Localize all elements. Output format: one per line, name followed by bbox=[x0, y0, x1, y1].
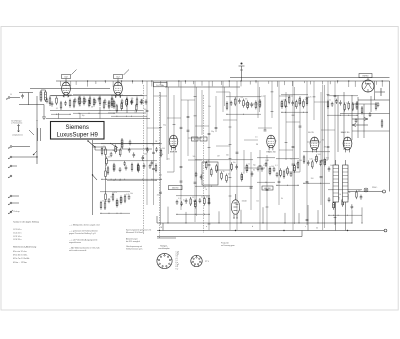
node bbox=[283, 230, 284, 231]
wire chassis bus 1 bbox=[157, 222, 352, 224]
terminal E bbox=[8, 195, 12, 198]
svg-text:200: 200 bbox=[299, 160, 302, 162]
svg-text:EL 95: EL 95 bbox=[308, 132, 314, 134]
capacitor C6 bbox=[121, 99, 124, 105]
tube V1 ECH81 bbox=[62, 82, 71, 97]
svg-text:— = als Prufsender-Ausgangswer: — = als Prufsender-Ausgangswerte bbox=[69, 239, 97, 242]
svg-text:47k: 47k bbox=[131, 98, 134, 100]
svg-text:0,25: 0,25 bbox=[308, 96, 311, 98]
svg-text:Abweichungen: Abweichungen bbox=[126, 238, 138, 241]
wire EM80 output bbox=[358, 99, 390, 101]
note test point bbox=[221, 242, 235, 248]
terminal antenna A1 bbox=[6, 97, 10, 100]
svg-text:gegen Chassis bei Stellung 1 g: gegen Chassis bei Stellung 1 g.U. bbox=[69, 232, 97, 235]
wire bbox=[105, 179, 107, 192]
svg-text:f1: f1 bbox=[194, 139, 196, 141]
svg-text:0,5: 0,5 bbox=[241, 97, 243, 99]
svg-text:70: 70 bbox=[290, 159, 292, 161]
svg-text:an Fassung gem.: an Fassung gem. bbox=[221, 245, 235, 247]
svg-text:10,7 MHz: 10,7 MHz bbox=[156, 85, 164, 87]
wire right edge drop bbox=[389, 81, 391, 192]
svg-text:10: 10 bbox=[10, 94, 12, 96]
svg-text:Messwerk 20 kOhm/V: Messwerk 20 kOhm/V bbox=[126, 232, 144, 234]
capacitor C1 bbox=[46, 98, 49, 104]
wire bus corner bbox=[156, 216, 158, 223]
wire bbox=[12, 202, 19, 204]
wire bus3 corner bbox=[301, 231, 303, 237]
switch S1 bbox=[87, 140, 95, 150]
capacitor C2 bbox=[74, 98, 77, 104]
svg-text:bis 20% moeglich: bis 20% moeglich bbox=[126, 241, 140, 243]
wire arrows tuning bbox=[352, 118, 368, 127]
capacitor C9 bbox=[129, 140, 132, 146]
svg-text:10n: 10n bbox=[104, 104, 107, 106]
potentiometer P1 bbox=[33, 151, 38, 158]
capacitor C41 bbox=[369, 112, 372, 117]
svg-text:M in ein 12 ckn.: M in ein 12 ckn. bbox=[13, 251, 27, 253]
wire row feed bbox=[50, 95, 143, 97]
svg-text:Vielfachmesser gem.: Vielfachmesser gem. bbox=[126, 249, 143, 251]
wire bbox=[43, 105, 45, 118]
wire bbox=[110, 143, 118, 148]
terminal G bbox=[8, 211, 12, 214]
note text Telefunken bbox=[11, 120, 22, 125]
socket noval view bbox=[157, 253, 172, 268]
wire comb jogs bbox=[147, 92, 335, 150]
note bbox=[69, 224, 100, 227]
note bbox=[126, 229, 152, 235]
svg-text:0,25: 0,25 bbox=[261, 96, 264, 98]
svg-text:25: 25 bbox=[79, 106, 81, 108]
scattered value labels left bbox=[49, 94, 147, 116]
svg-text:220V~: 220V~ bbox=[372, 187, 378, 189]
svg-text:0,5: 0,5 bbox=[302, 103, 304, 105]
wire drop bbox=[99, 113, 101, 119]
svg-text:50k: 50k bbox=[208, 106, 211, 108]
svg-text:0,1: 0,1 bbox=[275, 165, 277, 167]
svg-text:50k: 50k bbox=[193, 156, 196, 158]
wire left column bbox=[36, 96, 38, 121]
wire bbox=[343, 92, 345, 150]
wire bbox=[36, 120, 38, 164]
tube V4 EABC80 bbox=[267, 135, 276, 150]
wire bbox=[335, 202, 337, 210]
terminal TB bbox=[8, 156, 12, 159]
svg-text:Wellenbereich-Abstimmung:: Wellenbereich-Abstimmung: bbox=[13, 246, 37, 249]
capacitor C3 bbox=[84, 98, 87, 104]
svg-text:Pick-up: Pick-up bbox=[14, 211, 20, 213]
note bbox=[126, 238, 140, 244]
label box ZF2 bbox=[262, 186, 273, 190]
wire stub 238 bbox=[157, 237, 176, 239]
capacitor C42 bbox=[355, 118, 358, 123]
lamp pilot bbox=[364, 188, 368, 192]
resistor R5 bbox=[111, 98, 113, 109]
dipole symbol bbox=[17, 125, 19, 133]
svg-text:1:140: 1:140 bbox=[242, 201, 248, 203]
component cluster bias bbox=[328, 190, 363, 216]
wire bbox=[363, 104, 365, 138]
note bbox=[69, 247, 100, 253]
svg-text:M 9x 7m 13 5mWr.: M 9x 7m 13 5mWr. bbox=[13, 258, 30, 260]
wire bbox=[12, 156, 37, 158]
component cluster V1 grid bbox=[51, 96, 71, 115]
wire bbox=[235, 194, 237, 200]
terminal D bbox=[8, 175, 12, 178]
switch S2 bbox=[92, 174, 97, 180]
wire bbox=[28, 93, 30, 106]
svg-text:1n: 1n bbox=[223, 171, 225, 173]
wire bbox=[126, 107, 128, 113]
svg-text:Siemens: Siemens bbox=[66, 125, 89, 131]
wire left grid bus bbox=[30, 88, 110, 90]
svg-text:EABC 80: EABC 80 bbox=[267, 151, 277, 154]
capacitor C7 bbox=[131, 99, 134, 105]
transistor-ish target screen bbox=[375, 88, 385, 96]
component cluster tone 1 bbox=[100, 192, 133, 214]
svg-text:5k: 5k bbox=[141, 95, 143, 97]
resistor R6 bbox=[126, 97, 128, 108]
terminal TA bbox=[8, 146, 12, 149]
wire bbox=[93, 146, 106, 148]
wire bbox=[340, 113, 390, 115]
wire bbox=[41, 89, 46, 91]
svg-text:200: 200 bbox=[311, 178, 314, 180]
wire bbox=[357, 97, 359, 138]
svg-text:8k: 8k bbox=[162, 154, 164, 156]
wire drop bbox=[307, 205, 309, 231]
svg-text:8k: 8k bbox=[235, 202, 237, 204]
resistor R7 bbox=[136, 97, 138, 108]
svg-text:0,1: 0,1 bbox=[178, 198, 180, 200]
wire bbox=[335, 160, 337, 165]
svg-text:1n: 1n bbox=[248, 164, 250, 166]
wire bbox=[19, 104, 44, 106]
wire bbox=[10, 97, 20, 99]
node B+ feed bbox=[239, 63, 245, 82]
wire dashed screen 2 bbox=[203, 95, 205, 233]
wire top HT bus bbox=[56, 80, 390, 82]
svg-text:52: 52 bbox=[316, 228, 318, 230]
svg-text:Rontgen-: Rontgen- bbox=[160, 245, 168, 248]
socket pin list bbox=[176, 252, 179, 271]
svg-text:8k: 8k bbox=[122, 148, 124, 150]
wire diag bbox=[29, 130, 34, 135]
wire bus corner 2 bbox=[162, 223, 164, 231]
wire top HT bus 2 bbox=[230, 77, 390, 79]
wire bbox=[352, 103, 376, 105]
resistor R22 bbox=[105, 192, 107, 203]
wire bbox=[352, 130, 390, 132]
component cluster phase inv bbox=[276, 159, 302, 186]
wire pair right bbox=[323, 85, 325, 230]
legend list ranges bbox=[13, 251, 30, 264]
svg-text:Gleichspannung mit: Gleichspannung mit bbox=[126, 245, 142, 248]
svg-text:50k: 50k bbox=[265, 160, 268, 162]
wire row return bbox=[50, 110, 143, 112]
svg-text:30p: 30p bbox=[253, 164, 256, 166]
svg-text:angeschlossen: angeschlossen bbox=[69, 242, 81, 244]
wire row bottom link bbox=[46, 118, 150, 120]
wire bbox=[108, 112, 146, 114]
component cluster IF amp 2 bbox=[281, 95, 312, 113]
svg-text:AM 460: AM 460 bbox=[264, 187, 270, 190]
wire bbox=[122, 148, 152, 150]
coil L2 antenna bbox=[45, 90, 47, 102]
svg-text:0,5: 0,5 bbox=[201, 196, 203, 198]
label for V7 bbox=[359, 74, 372, 78]
svg-text:1n: 1n bbox=[183, 199, 185, 201]
transformer TR1 primary bbox=[333, 165, 339, 202]
svg-text:10n: 10n bbox=[167, 158, 170, 160]
wire bbox=[92, 140, 94, 215]
svg-text:Spannungswerte gemessen mit: Spannungswerte gemessen mit bbox=[126, 229, 152, 232]
svg-text:f2: f2 bbox=[203, 139, 205, 141]
svg-text:15k: 15k bbox=[245, 98, 248, 100]
coil L3 bbox=[121, 138, 123, 149]
svg-text:EBF 89: EBF 89 bbox=[170, 152, 178, 154]
resistor R1 bbox=[49, 96, 51, 107]
tube V6 EZ80 bbox=[343, 137, 352, 152]
svg-text:100: 100 bbox=[144, 109, 147, 111]
terminal chassis right bbox=[384, 229, 387, 232]
terminal F bbox=[8, 202, 12, 205]
svg-text:— = Mittelpunkte, die bei ausg: — = Mittelpunkte, die bei ausgeb. sind bbox=[69, 224, 100, 227]
svg-text:8k: 8k bbox=[349, 192, 351, 194]
tube V3 EBF89 bbox=[169, 135, 178, 150]
wire bbox=[95, 149, 122, 151]
tube V5 EL84 bbox=[310, 137, 319, 152]
capacitor C40 bbox=[377, 102, 380, 107]
wire pair down bbox=[38, 128, 41, 141]
component cluster PSU filter bbox=[303, 152, 333, 184]
resistor R21 bbox=[105, 169, 107, 180]
label HF2 for V2 bbox=[114, 75, 123, 79]
component cluster ratio det bbox=[101, 144, 165, 180]
wire drop bbox=[79, 113, 81, 119]
terminal UKW bbox=[8, 165, 12, 168]
capacitor C5 bbox=[104, 99, 107, 105]
wire bandswitch comb verticals bbox=[61, 80, 383, 230]
svg-text:10n: 10n bbox=[228, 173, 231, 175]
svg-text:0,5: 0,5 bbox=[121, 94, 123, 96]
svg-text:CC3 14 n: CC3 14 n bbox=[13, 236, 21, 238]
svg-text:2n: 2n bbox=[202, 173, 204, 175]
capacitor C0 bbox=[21, 94, 24, 99]
svg-text:0,5: 0,5 bbox=[204, 186, 206, 188]
tube V2 EBF89 bbox=[114, 82, 123, 97]
leader arrow V1 bbox=[72, 70, 77, 75]
wire drops to chassis bus bbox=[167, 207, 362, 224]
svg-text:1n: 1n bbox=[329, 100, 331, 102]
svg-text:CC1 64 n: CC1 64 n bbox=[13, 229, 21, 231]
component cluster ratio det row2 bbox=[107, 161, 157, 181]
component cluster tone 2 bbox=[176, 196, 210, 215]
note pickup symbol bbox=[10, 210, 20, 213]
socket pentode view bbox=[191, 255, 202, 266]
leader arrow V2 bbox=[124, 70, 130, 76]
note bbox=[69, 239, 97, 245]
wire bbox=[120, 95, 122, 98]
component cluster det diode bbox=[257, 158, 278, 183]
svg-text:1n: 1n bbox=[113, 104, 115, 106]
resistor R31 bbox=[361, 106, 363, 115]
component cluster osc bbox=[111, 96, 147, 117]
capacitor C4 bbox=[94, 99, 97, 105]
capacitor ticks on bandswitch bbox=[146, 92, 337, 224]
wire bbox=[370, 96, 372, 112]
svg-text:EM 80: EM 80 bbox=[363, 76, 370, 78]
resistor R4 bbox=[99, 96, 101, 107]
svg-text:8k: 8k bbox=[243, 172, 245, 174]
terminal speaker bbox=[383, 190, 386, 193]
svg-text:2n: 2n bbox=[109, 110, 111, 112]
label box IF2a bbox=[192, 137, 199, 141]
capacitor C8 bbox=[141, 99, 144, 105]
wire bbox=[345, 202, 347, 210]
wire bbox=[117, 79, 119, 83]
svg-text:47k: 47k bbox=[114, 192, 117, 194]
component cluster EM80 drive bbox=[327, 96, 358, 116]
wire bbox=[62, 95, 64, 97]
note bbox=[69, 230, 98, 236]
svg-text:10n: 10n bbox=[233, 162, 236, 164]
resistor R20 bbox=[105, 147, 107, 158]
legend list trimmer values bbox=[13, 229, 21, 241]
label plate Siemens LuxusSuper H9 bbox=[51, 122, 105, 140]
resistor R32 bbox=[375, 102, 377, 111]
svg-text:8k: 8k bbox=[339, 194, 341, 196]
wire bbox=[114, 95, 116, 98]
svg-text:500: 500 bbox=[162, 148, 165, 150]
wire speaker feed bbox=[348, 191, 383, 193]
wire drop bbox=[58, 113, 60, 119]
tube V8 EL84 output bbox=[231, 200, 239, 219]
label box IF2b bbox=[200, 137, 207, 141]
svg-text:10n: 10n bbox=[256, 201, 259, 203]
svg-text:Prufpunkt: Prufpunkt bbox=[221, 242, 229, 245]
wire bbox=[374, 81, 376, 100]
component cluster AF stage bbox=[195, 160, 255, 187]
wire bbox=[65, 79, 67, 83]
component cluster V2 grid bbox=[73, 95, 115, 114]
wire bbox=[12, 165, 17, 167]
node bbox=[347, 230, 348, 231]
wire bbox=[99, 107, 101, 113]
svg-text:30p: 30p bbox=[82, 115, 85, 117]
node bbox=[235, 230, 236, 231]
svg-text:25: 25 bbox=[192, 197, 194, 199]
svg-text:0,5: 0,5 bbox=[255, 137, 257, 139]
svg-text:200: 200 bbox=[157, 194, 160, 196]
svg-text:30p: 30p bbox=[211, 131, 214, 133]
scattered value labels bbox=[152, 96, 335, 204]
shield box AF bbox=[202, 162, 218, 185]
wire drop bbox=[335, 210, 337, 231]
svg-text:10n: 10n bbox=[206, 196, 209, 198]
wire bbox=[337, 95, 339, 152]
wire bbox=[12, 146, 30, 148]
wire bbox=[12, 195, 19, 197]
note bbox=[126, 245, 143, 251]
label 102 for V1 bbox=[62, 75, 71, 79]
wire chassis bus 2 bbox=[157, 230, 384, 232]
svg-text:CC2 41 n: CC2 41 n bbox=[13, 232, 21, 234]
svg-text:300: 300 bbox=[326, 157, 329, 159]
svg-text:15k: 15k bbox=[70, 95, 73, 97]
resistor R2 bbox=[79, 96, 81, 107]
wire bbox=[68, 95, 70, 97]
label box ZF bbox=[169, 186, 183, 190]
wire bbox=[367, 78, 369, 80]
svg-text:— Alle Widerstandswerte in Ohm: — Alle Widerstandswerte in Ohm, falls bbox=[69, 247, 100, 250]
svg-text:LuxusSuper H9: LuxusSuper H9 bbox=[57, 133, 99, 139]
svg-text:50k: 50k bbox=[130, 193, 133, 195]
svg-text:460 kHz: 460 kHz bbox=[172, 188, 179, 190]
svg-text:500: 500 bbox=[330, 165, 333, 167]
svg-text:50k: 50k bbox=[102, 201, 105, 203]
coil L1 antenna bbox=[40, 90, 42, 102]
svg-text:EABC 80: EABC 80 bbox=[341, 131, 350, 134]
svg-text:Tastatur in der abgeb. Stellun: Tastatur in der abgeb. Stellung: bbox=[13, 221, 40, 224]
svg-text:15k: 15k bbox=[135, 111, 138, 113]
svg-text:5k: 5k bbox=[205, 189, 207, 191]
svg-text:8k: 8k bbox=[253, 170, 255, 172]
svg-text:nicht anders vermerkt: nicht anders vermerkt bbox=[69, 249, 87, 252]
label box IF1 bbox=[154, 83, 168, 87]
ground antenna bbox=[42, 117, 46, 120]
svg-text:— = gemessen mit Rohrenvoltmet: — = gemessen mit Rohrenvoltmeter bbox=[69, 230, 98, 233]
wire feed V3 bbox=[93, 143, 160, 145]
svg-text:500: 500 bbox=[159, 175, 162, 177]
svg-text:100: 100 bbox=[271, 166, 274, 168]
tube V7 EM80 magic eye bbox=[362, 80, 374, 92]
wire bbox=[105, 157, 107, 169]
svg-text:anschlussplan: anschlussplan bbox=[158, 248, 169, 250]
node bbox=[159, 230, 160, 231]
svg-text:15k: 15k bbox=[49, 103, 52, 105]
svg-text:5k: 5k bbox=[152, 145, 154, 147]
component cluster IF amp 1 bbox=[226, 97, 261, 115]
transformer TR1 secondary bbox=[343, 165, 349, 202]
svg-text:300: 300 bbox=[81, 101, 84, 103]
svg-text:c: c bbox=[305, 226, 306, 228]
svg-text:50k: 50k bbox=[108, 156, 111, 158]
socket label bbox=[158, 245, 169, 251]
svg-text:0,1: 0,1 bbox=[56, 108, 58, 110]
svg-text:200: 200 bbox=[144, 154, 147, 156]
svg-text:100: 100 bbox=[110, 196, 113, 198]
resistor R30 bbox=[381, 119, 383, 128]
svg-text:8k: 8k bbox=[281, 198, 283, 200]
svg-text:30p: 30p bbox=[163, 125, 166, 127]
wire dashed screen 1 bbox=[159, 92, 161, 238]
wire bbox=[351, 95, 353, 140]
wire bbox=[345, 160, 347, 165]
svg-text:M 4m ... 12 Nm.: M 4m ... 12 Nm. bbox=[13, 262, 28, 264]
resistor R3 bbox=[89, 96, 91, 107]
wire bbox=[19, 92, 33, 94]
svg-text:CC0 33 n: CC0 33 n bbox=[13, 239, 21, 241]
wire drop bbox=[345, 210, 347, 231]
wire dashed IF axis bbox=[143, 85, 145, 235]
svg-text:500: 500 bbox=[226, 155, 229, 157]
svg-text:500: 500 bbox=[318, 154, 321, 156]
wire mid bus seg bbox=[165, 86, 240, 88]
svg-text:M 4x 6m 13 krls.: M 4x 6m 13 krls. bbox=[13, 255, 28, 257]
wire chassis bus 3 bbox=[157, 236, 302, 238]
svg-text:25: 25 bbox=[226, 182, 228, 184]
